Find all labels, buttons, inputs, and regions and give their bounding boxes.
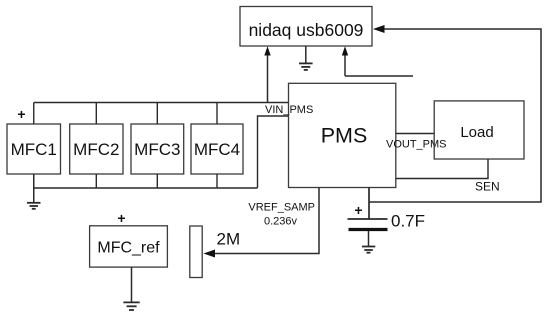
block MFC_ref xyxy=(90,226,168,267)
svg-text:Load: Load xyxy=(460,124,493,141)
ground below MFC_ref xyxy=(123,267,139,310)
wire PMS to capacitor node xyxy=(368,188,370,220)
wire SEN from Load to PMS xyxy=(396,159,488,179)
wire VREF_SAMP from PMS to resistor with arrow xyxy=(204,188,320,258)
svg-text:VOUT_PMS: VOUT_PMS xyxy=(386,139,447,151)
svg-text:MFC1: MFC1 xyxy=(11,140,57,159)
svg-text:0.236v: 0.236v xyxy=(264,216,298,228)
svg-text:nidaq usb6009: nidaq usb6009 xyxy=(249,20,364,40)
block MFC3 xyxy=(131,124,184,174)
svg-text:MFC4: MFC4 xyxy=(194,140,240,159)
svg-text:2M: 2M xyxy=(217,230,241,249)
ground below capacitor xyxy=(362,231,375,253)
ground below nidaq xyxy=(299,46,313,70)
svg-text:0.7F: 0.7F xyxy=(391,212,425,231)
svg-text:+: + xyxy=(117,210,125,226)
svg-text:MFC2: MFC2 xyxy=(73,140,119,159)
capacitor C1 0.7F xyxy=(348,219,388,230)
svg-text:+: + xyxy=(17,106,25,122)
wire bottom bus to PMS xyxy=(34,116,289,188)
svg-text:PMS: PMS xyxy=(321,124,368,148)
block MFC1 xyxy=(7,124,61,174)
block U1 nidaq usb6009 xyxy=(240,7,372,47)
block MFC4 xyxy=(191,124,243,174)
block MFC2 xyxy=(70,124,123,174)
svg-text:SEN: SEN xyxy=(475,180,500,194)
wire feedback from capacitor node up right side into nidaq with arrow xyxy=(369,25,541,202)
block Load xyxy=(434,101,524,159)
wire stub PMS to nidaq with arrow xyxy=(342,46,413,76)
wire VOUT_PMS to Load xyxy=(396,133,434,135)
wire arrow VIN_PMS bus into nidaq bottom xyxy=(264,46,270,102)
svg-text:VREF_SAMP: VREF_SAMP xyxy=(248,202,315,214)
wire top supply bus xyxy=(34,103,289,125)
ground below MFC1 xyxy=(27,174,41,209)
block PMS xyxy=(289,83,396,187)
svg-text:MFC_ref: MFC_ref xyxy=(97,240,160,257)
svg-text:+: + xyxy=(354,202,362,218)
svg-text:MFC3: MFC3 xyxy=(134,140,180,159)
resistor R1 2M xyxy=(190,226,202,278)
